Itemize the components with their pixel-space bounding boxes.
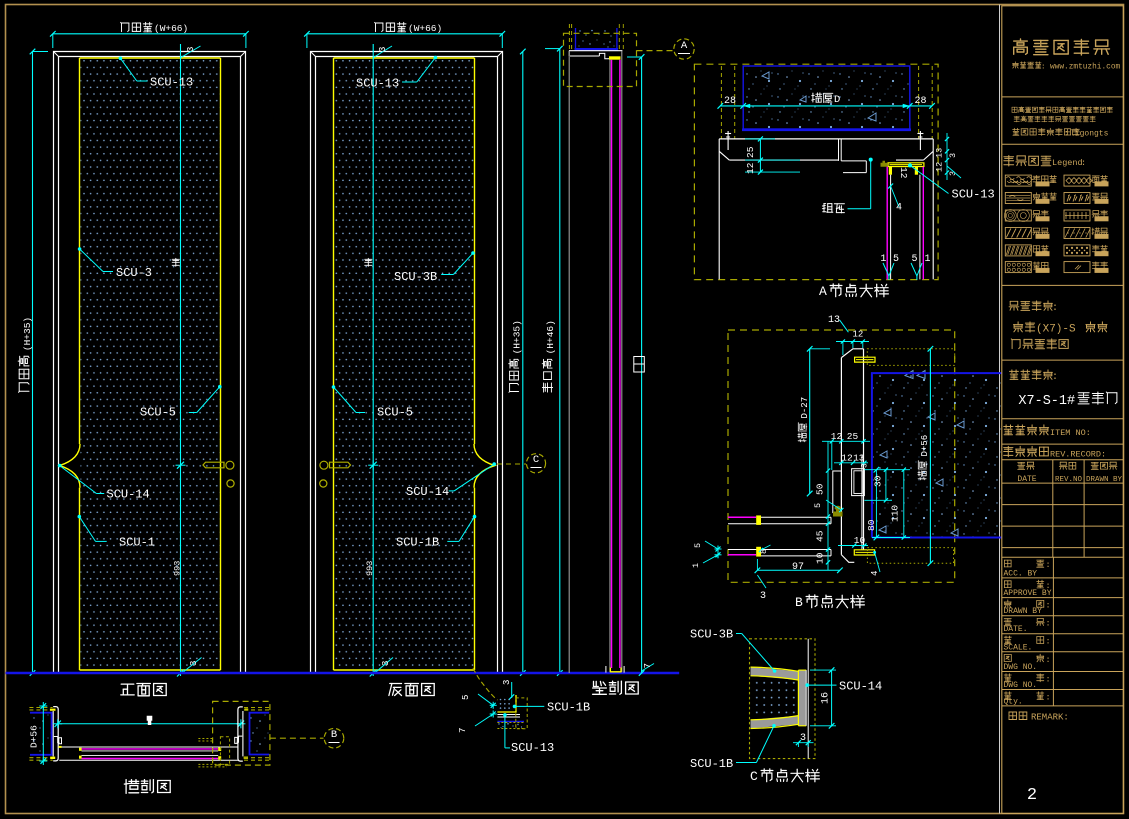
svg-text:13: 13: [828, 315, 840, 326]
detail A head frame profile: [719, 138, 933, 140]
door1 bottom gap dim 3: [182, 658, 202, 674]
section left dim arrow: [545, 48, 560, 50]
svg-text:SCU-3B: SCU-3B: [394, 270, 437, 284]
svg-text:www.zmtuzhi.com: www.zmtuzhi.com: [1050, 63, 1121, 71]
svg-text:SCU-1: SCU-1: [119, 536, 155, 550]
door2 label SCU-14: [492, 462, 496, 466]
detail B right wall dim D+56: [929, 349, 931, 563]
svg-text:B: B: [331, 729, 337, 741]
detail B callout on hsec: [213, 701, 270, 765]
detail C top skin: [751, 667, 799, 680]
detail B left step: [833, 471, 842, 513]
svg-text:REV.RECORD:: REV.RECORD:: [1050, 450, 1106, 460]
svg-text:1: 1: [691, 563, 701, 568]
hsec right jamb casing: [238, 707, 243, 761]
svg-text:2: 2: [1027, 786, 1037, 805]
svg-text:(X7)-S: (X7)-S: [1036, 324, 1076, 336]
svg-text:7: 7: [643, 663, 653, 668]
svg-text:Legend: Legend: [1052, 158, 1083, 168]
svg-text:ligongts: ligongts: [1070, 130, 1109, 139]
section frame lines: [568, 51, 570, 673]
door2 bottom gap dim 3: [375, 658, 393, 674]
legend header: [1004, 156, 1051, 167]
svg-text:3: 3: [948, 153, 958, 158]
bottom gap detail floor hatch: [498, 723, 499, 724]
svg-text:12: 12: [831, 431, 843, 442]
hsec left wall dim D+56: [42, 706, 44, 761]
detail B dim 8: [759, 548, 763, 552]
svg-text::: :: [1052, 372, 1058, 383]
detail B bottom seal yellow: [854, 550, 874, 555]
detail A wall concrete: [744, 67, 909, 130]
svg-text:(W+66): (W+66): [408, 23, 442, 34]
door2 top dim label W+66: [375, 22, 406, 31]
svg-text:1: 1: [924, 254, 930, 265]
signature rows: [1002, 556, 1124, 558]
hsec interior architrave hidden dashes: [198, 738, 212, 740]
bottom gap detail dims: [511, 682, 513, 698]
svg-text:DWG NO.: DWG NO.: [1004, 681, 1038, 690]
detail A callout box: [694, 64, 938, 279]
svg-text:(H+46): (H+46): [545, 320, 556, 354]
svg-text:5: 5: [911, 254, 917, 265]
detail C mirror line: [807, 639, 809, 759]
detail A callout circle: [674, 39, 694, 59]
detail A label SCU-13: [908, 163, 912, 167]
detail B door leaf bar 1: [728, 516, 756, 518]
promo text: [1012, 107, 1112, 113]
detail B wall lines blue: [872, 373, 1002, 537]
detail B dim 97: [757, 569, 840, 571]
door2 centerline: [372, 44, 374, 676]
door1 left height dimension line: [32, 52, 34, 674]
section right dim line leaf height: [641, 57, 643, 673]
hsec right hidden dashes: [244, 707, 270, 709]
door2 label SCU-3B: [471, 251, 475, 255]
svg-text:3: 3: [502, 680, 512, 685]
door1 hinge-side pinch curve: [60, 444, 81, 488]
detail A hidden jamb dashed lines: [720, 66, 722, 139]
door1 outer frame: [54, 52, 246, 674]
svg-text:B: B: [795, 595, 803, 610]
svg-text::: :: [1046, 560, 1051, 570]
door2 E-mark on centerline: [365, 258, 372, 266]
svg-text:SCU-1B: SCU-1B: [690, 757, 733, 771]
detail B callout box: [728, 330, 955, 582]
door2 leaf yellow outline: [334, 57, 475, 59]
svg-text:SCU-3: SCU-3: [116, 266, 152, 280]
detail C label SCU-14: [805, 683, 809, 687]
svg-text:DWG NO.: DWG NO.: [1004, 663, 1038, 672]
hsec left jamb rebate step: [54, 737, 62, 744]
bottom gap detail callout path: [473, 668, 498, 700]
door1 left dim label H+35: [18, 356, 29, 392]
svg-text:12: 12: [935, 162, 945, 172]
svg-text:SCU-13: SCU-13: [150, 76, 193, 90]
detail B olive clip: [833, 508, 843, 517]
door2 inner frame: [316, 57, 498, 674]
remark block: [1009, 712, 1027, 720]
svg-text:(H+35): (H+35): [512, 320, 523, 354]
door1 leaf face dotted texture: [81, 59, 220, 669]
detail B mid dims 12 25: [822, 440, 870, 442]
detail C dim 3: [793, 742, 814, 744]
svg-text:(H+35): (H+35): [22, 317, 33, 351]
door2 handle: [330, 462, 351, 468]
svg-text::: :: [1052, 303, 1058, 314]
svg-text:D-27: D-27: [800, 397, 810, 419]
svg-text:12: 12: [745, 162, 756, 174]
section head hidden wall dashed lines: [568, 24, 570, 50]
detail C callout box: [750, 639, 816, 759]
dim line opening height H+46: [559, 49, 561, 673]
svg-text:5: 5: [813, 503, 823, 508]
detail B seal dim 4 leader: [875, 552, 880, 572]
door1 label SCU-3: [78, 247, 82, 251]
svg-text::: :: [1046, 637, 1051, 647]
svg-text:110: 110: [890, 505, 901, 522]
detail A casing side faces: [718, 151, 720, 279]
detail C callout circle: [497, 463, 526, 465]
rev record row: [1004, 446, 1049, 456]
svg-text:3: 3: [861, 463, 870, 468]
svg-text:SCU-13: SCU-13: [952, 188, 995, 202]
svg-text:10: 10: [854, 535, 866, 546]
detail B vertical dim chain 50 45 10: [827, 441, 829, 570]
detail C bottom skin: [751, 716, 799, 729]
svg-text:C: C: [533, 454, 539, 466]
logo url: [1013, 62, 1042, 68]
detail A gap dim 4: [888, 184, 893, 189]
title block outer box: [1002, 6, 1124, 814]
detail B rebate pocket: [852, 469, 865, 496]
detail B left wall dim D-27: [809, 349, 811, 494]
door1 centerline: [180, 44, 182, 676]
caption front elevation: [121, 684, 166, 696]
detail B dim 3 leader: [757, 575, 766, 588]
svg-text:SCU-13: SCU-13: [511, 741, 554, 755]
section head frame profile: [569, 50, 622, 52]
section bottom dim 7 label: [642, 664, 654, 672]
svg-text:REV.NO: REV.NO: [1055, 476, 1083, 484]
svg-text:SCU-5: SCU-5: [140, 406, 176, 420]
detail B clip dim 5: [839, 508, 843, 512]
hsec left wall concrete: [30, 714, 51, 755]
item no row: [1004, 425, 1049, 435]
svg-text:D+56: D+56: [920, 435, 930, 457]
door1 leaf yellow outline: [80, 57, 221, 59]
hsec right jamb rebate step: [235, 736, 243, 743]
svg-text:DATE.: DATE.: [1004, 625, 1028, 634]
svg-text:12: 12: [853, 330, 864, 340]
hsec right wall concrete: [250, 714, 270, 755]
door1 top gap dim 3: [181, 46, 201, 58]
svg-text:Qty.: Qty.: [1004, 697, 1023, 706]
section head wall concrete: [579, 30, 580, 31]
detail B callout circle: [324, 728, 344, 748]
detail B bottom chamfer: [841, 555, 854, 563]
svg-text:SCU-13: SCU-13: [356, 77, 399, 91]
svg-text:30: 30: [872, 475, 883, 487]
section head seal yellow: [609, 56, 621, 59]
detail A zusi label: [869, 158, 873, 162]
svg-text:3: 3: [189, 661, 199, 666]
door1 handle: [203, 462, 224, 468]
hsec left jamb casing: [53, 707, 58, 761]
svg-text:3: 3: [378, 47, 388, 52]
svg-text::: :: [1046, 601, 1051, 611]
door2 label SCU-13: [434, 56, 438, 60]
detail A frame rebate step: [839, 139, 867, 173]
svg-text:D+56: D+56: [29, 725, 40, 748]
detail B leaf end dims 5 1: [716, 547, 721, 552]
detail C edge band: [798, 670, 806, 726]
svg-text:10: 10: [815, 552, 826, 564]
detail C core dots: [752, 681, 797, 714]
svg-text:SCALE.: SCALE.: [1004, 643, 1033, 652]
caption vertical section: [593, 681, 639, 694]
detail B dim 10 bottom: [838, 545, 868, 547]
door2 frame mitre joints: [311, 52, 316, 57]
svg-text:80: 80: [866, 519, 877, 531]
door2 label SCU-5: [332, 385, 336, 389]
door1 E-mark on centerline: [172, 258, 179, 266]
svg-text:ACC. BY: ACC. BY: [1004, 569, 1038, 578]
svg-text::: :: [1046, 693, 1051, 703]
dim line door frame height H+35: [522, 52, 524, 674]
svg-text::: :: [1046, 619, 1051, 629]
door2 top gap dim 3: [373, 46, 392, 58]
svg-text:28: 28: [724, 96, 736, 107]
svg-text::: :: [1041, 63, 1046, 71]
door1 top dim label W+66: [121, 22, 152, 31]
bottom gap detail door leaf piece: [500, 699, 502, 701]
svg-text::: :: [1081, 158, 1086, 168]
caption horizontal section: [124, 780, 170, 794]
hsec left hidden dashes: [29, 707, 52, 709]
detail A right dims 13 12 3 3: [946, 133, 948, 180]
svg-text:5: 5: [693, 543, 703, 548]
svg-text:25: 25: [847, 431, 859, 442]
section H mark: [634, 357, 645, 373]
svg-text:12: 12: [898, 167, 909, 179]
logo text: [1014, 39, 1110, 55]
door2 lock-side pinch curve: [474, 444, 495, 488]
door1 top width dimension line: [53, 33, 246, 35]
product name block: [1010, 370, 1053, 380]
detail A olive clip: [881, 161, 888, 167]
svg-text:X7-S-1#: X7-S-1#: [1018, 394, 1075, 409]
svg-text:APPROVE BY: APPROVE BY: [1004, 589, 1052, 598]
door2 top width dimension line: [307, 33, 502, 35]
door1 label SCU-14: [58, 464, 62, 468]
detail B hidden wall dotted top: [867, 349, 954, 366]
svg-text:SCU-1B: SCU-1B: [547, 701, 590, 715]
door2 outer frame: [311, 52, 503, 674]
svg-text:12: 12: [841, 453, 853, 464]
svg-text:SCU-1B: SCU-1B: [396, 536, 439, 550]
detail A door leaf section lines: [886, 167, 888, 280]
detail B jamb profile: [841, 349, 863, 358]
svg-text:3: 3: [800, 733, 806, 744]
detail B wall concrete: [873, 374, 1001, 537]
door2 label SCU-1B: [473, 515, 477, 519]
detail A door leaf top seal yellow: [888, 163, 924, 167]
bottom gap detail label SCU-1B: [513, 705, 517, 709]
svg-text:3: 3: [760, 591, 766, 602]
svg-text:SCU-14: SCU-14: [107, 488, 150, 502]
project name block: [1009, 301, 1052, 311]
hsec door leaf plan: [59, 746, 238, 748]
svg-text:3: 3: [186, 47, 196, 52]
svg-text:50: 50: [815, 483, 826, 495]
svg-text:REMARK:: REMARK:: [1031, 713, 1069, 723]
svg-text:SCU-3B: SCU-3B: [690, 628, 733, 642]
svg-text::: :: [1046, 675, 1051, 685]
svg-text:97: 97: [792, 562, 804, 573]
svg-text:DRAWN BY: DRAWN BY: [1086, 476, 1123, 484]
detail C dim 16: [831, 670, 833, 726]
svg-text:25: 25: [745, 146, 756, 158]
svg-text:45: 45: [815, 530, 826, 542]
title block divider line: [999, 5, 1001, 814]
detail B dims 12 13 3: [834, 462, 868, 464]
svg-text:D: D: [834, 94, 840, 106]
detail A wall thickness dim: [720, 105, 932, 107]
bottom gap detail label SCU-13: [503, 713, 507, 717]
svg-text:993: 993: [365, 561, 375, 576]
svg-text::: :: [1046, 655, 1051, 665]
svg-text:A: A: [819, 284, 827, 299]
detail A anchor screws: [727, 131, 729, 150]
svg-text:(W+66): (W+66): [154, 23, 188, 34]
svg-text:SCU-5: SCU-5: [377, 406, 413, 420]
door1 label SCU-5: [218, 385, 222, 389]
svg-text:13: 13: [853, 453, 865, 464]
detail B hidden wall dotted bottom: [867, 548, 953, 564]
door1 centerline cross at lock height: [177, 462, 184, 469]
door1 label SCU-13: [119, 57, 123, 61]
door1 frame mitre joints: [54, 52, 59, 57]
door1 label SCU-1: [78, 515, 82, 519]
svg-text:4: 4: [896, 203, 902, 214]
svg-text:3: 3: [381, 661, 391, 666]
svg-text:C: C: [750, 769, 758, 784]
svg-text:DATE: DATE: [1017, 475, 1036, 484]
svg-text:13: 13: [935, 148, 945, 158]
svg-text:4: 4: [870, 571, 880, 576]
svg-text:28: 28: [914, 96, 926, 107]
svg-text:A: A: [681, 40, 688, 52]
hsec leaf hinge blocks yellow: [79, 748, 82, 751]
caption back elevation: [389, 684, 434, 696]
svg-text::: :: [1064, 129, 1069, 139]
rev table: [1052, 460, 1054, 558]
svg-text:993: 993: [173, 561, 183, 576]
detail B door leaf bar 2: [728, 549, 831, 551]
door1 inner frame: [59, 57, 241, 674]
svg-text:DRAWN BY: DRAWN BY: [1004, 607, 1043, 616]
floor line: [6, 672, 680, 674]
door2 leaf face dotted texture: [335, 59, 474, 669]
svg-text:7: 7: [458, 728, 468, 733]
section leaf bottom edge: [610, 668, 621, 672]
detail B right dims 30 110 80: [875, 470, 877, 538]
detail A callout rectangle: [564, 33, 637, 86]
svg-text:SCU-14: SCU-14: [839, 680, 882, 694]
svg-text:16: 16: [821, 692, 832, 704]
legend swatches: [1005, 175, 1031, 186]
hsec width dim W: [58, 723, 241, 725]
detail B top seal yellow: [855, 357, 875, 362]
section door leaf faces magenta: [611, 60, 613, 668]
svg-text:5: 5: [461, 695, 471, 700]
svg-text:SCU-14: SCU-14: [406, 485, 449, 499]
detail A left dims 25 12: [759, 139, 761, 172]
svg-text:8: 8: [759, 549, 769, 554]
svg-text:ITEM NO:: ITEM NO:: [1050, 428, 1091, 438]
